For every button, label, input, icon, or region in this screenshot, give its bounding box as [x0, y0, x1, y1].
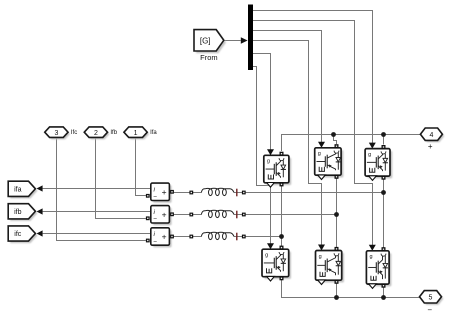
svg-text:+: +: [428, 142, 433, 151]
svg-text:−: −: [153, 216, 157, 223]
svg-text:−: −: [153, 238, 157, 245]
svg-text:2: 2: [94, 130, 98, 137]
svg-text:ifc: ifc: [14, 231, 22, 238]
svg-text:ifb: ifb: [14, 209, 22, 216]
svg-text:+: +: [162, 209, 167, 219]
svg-text:g: g: [265, 253, 268, 259]
svg-text:Ifc: Ifc: [71, 130, 77, 136]
svg-text:4: 4: [429, 132, 433, 139]
svg-text:1: 1: [134, 130, 138, 137]
svg-text:3: 3: [54, 130, 58, 137]
svg-text:g: g: [318, 151, 321, 157]
svg-text:From: From: [200, 53, 218, 62]
svg-text:+: +: [162, 232, 167, 242]
svg-text:g: g: [368, 152, 371, 158]
svg-text:Ifa: Ifa: [150, 130, 157, 136]
svg-text:Ifb: Ifb: [110, 130, 117, 136]
svg-text:[G]: [G]: [200, 36, 211, 45]
svg-text:g: g: [267, 159, 270, 165]
svg-text:−: −: [427, 305, 432, 314]
svg-text:g: g: [319, 254, 322, 260]
svg-text:5: 5: [429, 295, 433, 302]
svg-text:−: −: [153, 194, 157, 201]
svg-text:ifa: ifa: [14, 186, 22, 193]
svg-text:g: g: [369, 254, 372, 260]
svg-text:+: +: [162, 187, 167, 197]
